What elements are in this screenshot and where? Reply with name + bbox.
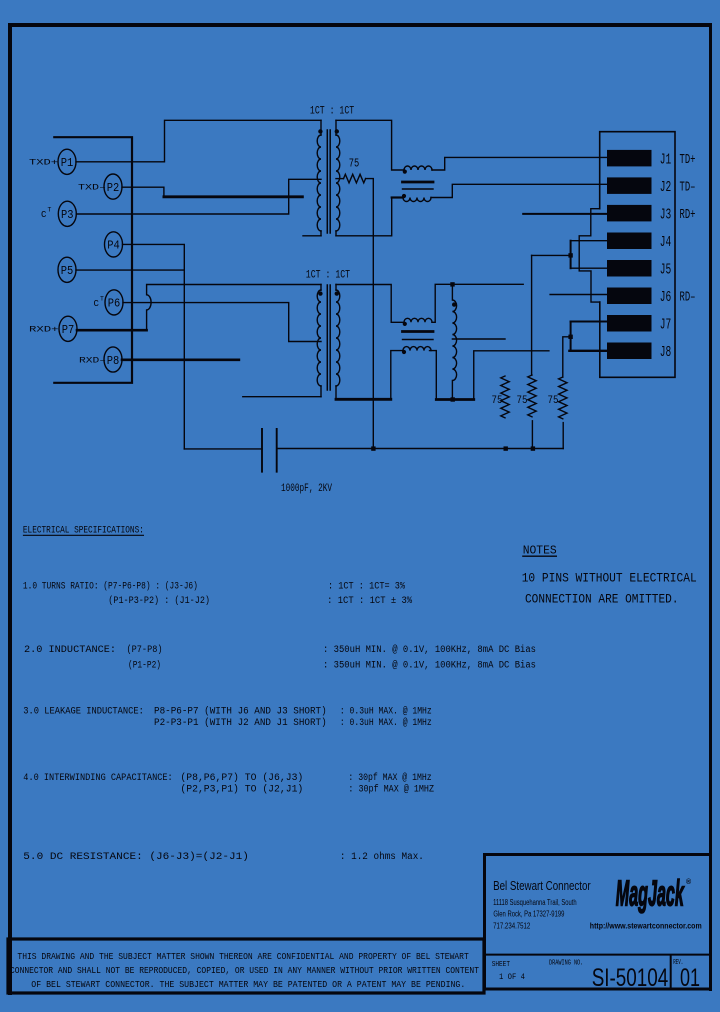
wire P2 to T1 primary bottom (dangling)	[122, 187, 164, 197]
svg-text:J3: J3	[660, 207, 672, 224]
common-mode choke CMC1 bottom coil	[403, 198, 431, 202]
svg-text:DRAWING NO.: DRAWING NO.	[549, 959, 583, 967]
transformer T2 primary winding	[317, 290, 321, 386]
pin P5	[58, 257, 76, 282]
wire T2 secondary top to choke CMC2	[336, 285, 404, 323]
wire T2 primary bottom pin (dangling left)	[243, 396, 321, 398]
svg-text:P1: P1	[61, 156, 74, 170]
svg-text:(P7-P8): (P7-P8)	[127, 644, 163, 656]
svg-text:1.0 TURNS RATIO: (P7-P6-P8) :: 1.0 TURNS RATIO: (P7-P6-P8) : (J3-J6)	[23, 581, 198, 593]
common-mode choke CMC1 top coil	[404, 166, 432, 170]
shorting bar J7-J8	[570, 322, 572, 351]
junction dot rail R4	[371, 446, 375, 450]
T1 secondary phase dot	[335, 129, 339, 133]
wire R3 bottom to rail end	[562, 423, 564, 449]
svg-text:75: 75	[517, 395, 528, 407]
svg-text:75: 75	[492, 395, 503, 407]
svg-text:J1: J1	[660, 152, 672, 169]
wire P8 to T2 primary bottom (dangling)	[122, 358, 239, 361]
svg-text:: 1CT : 1CT ± 3%: : 1CT : 1CT ± 3%	[327, 596, 412, 607]
transformer T2 core	[327, 285, 330, 390]
svg-text:C: C	[41, 210, 47, 220]
wire to J7	[571, 321, 607, 323]
wire L1 center tap (dangling)	[452, 338, 505, 340]
junction dot rail R2	[531, 446, 535, 450]
common-mode choke CMC2 bottom coil	[403, 347, 431, 351]
pin P8	[104, 347, 122, 372]
T2 primary phase dot	[318, 291, 322, 295]
confidentiality box	[8, 939, 484, 993]
CMC1 core	[403, 181, 434, 184]
svg-text:1000pF, 2KV: 1000pF, 2KV	[281, 483, 332, 495]
wire T2 secondary bottom to choke CMC2 lower	[336, 398, 391, 401]
pin P3	[58, 201, 76, 226]
contact pad J4	[607, 233, 652, 250]
svg-text:(P1-P2): (P1-P2)	[128, 660, 161, 672]
autotransformer L1 vertical winding	[452, 284, 456, 399]
svg-text:717.234.7512: 717.234.7512	[493, 922, 531, 931]
T2 secondary phase dot	[335, 291, 339, 295]
wire CMC1 bottom coil to J2	[431, 184, 607, 197]
wire J7/J8 junction down to resistor R3	[563, 337, 571, 377]
svg-text:RXD–: RXD–	[79, 356, 106, 365]
contact pad J8	[607, 343, 652, 360]
svg-text:: 30pf MAX @ 1MHz: : 30pf MAX @ 1MHz	[348, 772, 431, 784]
svg-text:: 0.3uH MAX. @ 1MHz: : 0.3uH MAX. @ 1MHz	[340, 717, 432, 729]
wire to J6 (RD-) dangling left	[550, 294, 607, 296]
wire node A to J3 (RD+) upper segment	[523, 213, 607, 215]
svg-text:TXD–: TXD–	[78, 184, 106, 193]
T1 pin stubs	[321, 120, 336, 236]
wire P4 down to capacitor	[123, 244, 185, 449]
svg-text:1CT : 1CT: 1CT : 1CT	[306, 269, 351, 281]
resistor R4 75 ohm horizontal	[344, 174, 366, 183]
CMC2 top coil phase dot	[403, 322, 407, 326]
wire to J8	[569, 350, 607, 352]
resistor R2 75 ohm vertical	[528, 375, 536, 417]
svg-text:TD–: TD–	[680, 181, 696, 196]
svg-text:: 0.3uH MAX. @ 1MHz: : 0.3uH MAX. @ 1MHz	[340, 705, 432, 717]
common-mode choke CMC2 top coil	[404, 318, 432, 322]
junction dot L1 bottom	[451, 397, 455, 401]
svg-text:P6: P6	[108, 297, 121, 311]
svg-text:THIS DRAWING AND THE SUBJECT M: THIS DRAWING AND THE SUBJECT MATTER SHOW…	[17, 952, 469, 962]
svg-text:CONNECTION ARE OMITTED.: CONNECTION ARE OMITTED.	[525, 591, 679, 606]
wire P1 to T1 primary top	[76, 120, 321, 162]
svg-text:P4: P4	[107, 239, 120, 253]
CMC2 bottom coil phase dot	[402, 350, 406, 354]
shorting bar J4-J5	[570, 241, 572, 269]
svg-text:: 350uH MIN. @ 0.1V, 100KHz, 8: : 350uH MIN. @ 0.1V, 100KHz, 8mA DC Bias	[323, 644, 536, 656]
svg-text:75: 75	[548, 395, 559, 407]
svg-text:P2: P2	[107, 181, 120, 195]
transformer T1 secondary winding	[336, 135, 340, 231]
title block outline	[485, 855, 711, 990]
svg-text:1 OF 4: 1 OF 4	[499, 972, 525, 982]
contact pad J2	[607, 177, 652, 194]
wire P5 joining P4 vertical	[76, 269, 184, 271]
transformer T1 core	[327, 130, 330, 233]
svg-text:P8: P8	[107, 354, 120, 368]
svg-text:TXD+: TXD+	[29, 159, 58, 168]
wire P7 to T2 primary top with hop over P6 wire	[77, 329, 147, 332]
CMC1 top coil phase dot	[403, 170, 407, 174]
wire P4/P5 rail to capacitor left plate	[184, 448, 262, 450]
resistor R1 75 ohm vertical (floating)	[501, 376, 509, 418]
svg-text:SI-50104: SI-50104	[592, 964, 669, 992]
wire T1 secondary center tap to resistor R4	[336, 178, 344, 180]
svg-text:5.0 DC RESISTANCE: (J6-J3)=(J2: 5.0 DC RESISTANCE: (J6-J3)=(J2-J1)	[23, 851, 249, 863]
svg-text:TD+: TD+	[680, 153, 696, 168]
wire R2 bottom to rail	[531, 421, 533, 449]
pin P7	[59, 316, 77, 341]
svg-text:OF BEL STEWART CONNECTOR. THE: OF BEL STEWART CONNECTOR. THE SUBJECT MA…	[31, 980, 465, 990]
svg-text:RXD+: RXD+	[29, 326, 59, 335]
wire J4/J5 short feed	[532, 254, 571, 256]
svg-text:Bel Stewart Connector: Bel Stewart Connector	[493, 878, 591, 893]
svg-text:J8: J8	[660, 344, 672, 361]
pin P4	[105, 232, 123, 257]
svg-text:J6: J6	[660, 289, 672, 306]
CMC2 core	[403, 330, 434, 333]
svg-text:Glen Rock, Pa 17327-9199: Glen Rock, Pa 17327-9199	[493, 909, 564, 918]
svg-text:2.0 INDUCTANCE:: 2.0 INDUCTANCE:	[24, 645, 116, 656]
svg-text:P3: P3	[61, 208, 74, 222]
pin P2	[104, 174, 122, 199]
svg-text:: 1.2 ohms Max.: : 1.2 ohms Max.	[340, 851, 424, 863]
wire CMC1 top coil to J1	[432, 157, 607, 170]
L1 phase dot	[452, 302, 456, 306]
pin P6	[105, 290, 123, 315]
svg-text:RD–: RD–	[680, 291, 696, 306]
junction dot J7/J8	[568, 335, 572, 339]
junction dot J4/J5	[568, 253, 572, 257]
svg-text:J7: J7	[660, 317, 672, 334]
wire P3 to T1 primary center tap	[76, 179, 321, 214]
ground rail from capacitor to resistors	[277, 448, 564, 450]
svg-text:: 30pf MAX @ 1MHZ: : 30pf MAX @ 1MHZ	[348, 784, 434, 796]
svg-text:4.0 INTERWINDING CAPACITANCE:: 4.0 INTERWINDING CAPACITANCE:	[23, 773, 172, 784]
transformer T1 primary winding	[317, 135, 321, 231]
svg-text:®: ®	[686, 878, 692, 886]
wire T1 primary bottom pin (dangling left)	[303, 235, 321, 237]
svg-text:T: T	[100, 295, 104, 302]
pin P1	[58, 149, 76, 174]
svg-text:(P1-P3-P2) : (J1-J2): (P1-P3-P2) : (J1-J2)	[108, 595, 210, 607]
svg-text:: 350uH MIN. @ 0.1V, 100KHz, 8: : 350uH MIN. @ 0.1V, 100KHz, 8mA DC Bias	[323, 660, 536, 672]
T1 primary phase dot	[318, 129, 322, 133]
svg-text:http://www.stewartconnector.co: http://www.stewartconnector.com	[590, 921, 702, 930]
wire CMC2 bottom coil down to J8 route	[430, 351, 437, 400]
svg-text:RD+: RD+	[680, 208, 696, 223]
svg-text:3.0 LEAKAGE INDUCTANCE:: 3.0 LEAKAGE INDUCTANCE:	[23, 706, 144, 717]
svg-text:T: T	[48, 207, 52, 214]
contact pad J5	[607, 260, 652, 277]
T2 pin stubs	[321, 285, 336, 400]
wire J4/J5 feed down to resistor R2	[531, 255, 533, 375]
svg-text:MagJack: MagJack	[616, 873, 685, 914]
junction dot rail R1	[504, 446, 508, 450]
svg-text:10 PINS WITHOUT ELECTRICAL: 10 PINS WITHOUT ELECTRICAL	[522, 570, 697, 585]
svg-text:SHEET: SHEET	[492, 961, 510, 969]
svg-text:1CT : 1CT: 1CT : 1CT	[310, 106, 355, 118]
svg-text:J2: J2	[660, 179, 672, 196]
resistor R3 75 ohm vertical	[559, 377, 567, 419]
wire to J4	[571, 240, 607, 242]
svg-text:NOTES: NOTES	[523, 543, 557, 557]
wire to J5	[571, 267, 607, 269]
svg-text:P8-P6-P7 (WITH J6 AND J3 SHORT: P8-P6-P7 (WITH J6 AND J3 SHORT)	[154, 705, 327, 717]
svg-text:P2-P3-P1 (WITH J2 AND J1 SHORT: P2-P3-P1 (WITH J2 AND J1 SHORT)	[154, 717, 327, 729]
wire P6 to T2 primary center tap	[123, 303, 321, 342]
connector J1-J8 outline box	[600, 132, 675, 378]
wire T1 secondary bottom to choke CMC1 lower	[336, 198, 392, 236]
contact pad J1	[607, 150, 652, 167]
CMC1 bottom coil phase dot	[402, 194, 406, 198]
module boundary bracket around pins P1-P8	[54, 137, 132, 383]
svg-text:01: 01	[680, 964, 700, 992]
svg-text:J4: J4	[660, 234, 672, 251]
wire T1 secondary top to choke CMC1	[336, 120, 404, 170]
svg-text:CONNECTOR AND SHALL NOT BE REP: CONNECTOR AND SHALL NOT BE REPRODUCED, C…	[10, 966, 480, 976]
svg-text:: 1CT : 1CT= 3%: : 1CT : 1CT= 3%	[328, 582, 405, 593]
wire CMC2 top coil to node A	[432, 284, 523, 322]
svg-text:75: 75	[349, 157, 360, 171]
contact pad J3	[607, 205, 652, 222]
capacitor C1 1000pF plates	[262, 429, 277, 472]
stepped wire along connector left edge	[579, 209, 600, 302]
svg-text:J5: J5	[660, 262, 672, 279]
svg-text:P7: P7	[62, 323, 75, 337]
transformer T2 secondary winding	[336, 290, 340, 386]
svg-text:11118 Susquehanna Trail, South: 11118 Susquehanna Trail, South	[493, 898, 576, 907]
junction node A dot (L1 top)	[450, 282, 454, 286]
contact pad J6	[607, 288, 652, 305]
svg-text:C: C	[94, 299, 100, 309]
svg-text:(P8,P6,P7) TO (J6,J3): (P8,P6,P7) TO (J6,J3)	[180, 772, 303, 784]
wire R4 to ground rail	[366, 179, 374, 449]
svg-text:P5: P5	[61, 264, 74, 278]
contact pad J7	[607, 315, 652, 332]
svg-text:(P2,P3,P1) TO (J2,J1): (P2,P3,P1) TO (J2,J1)	[180, 784, 303, 796]
